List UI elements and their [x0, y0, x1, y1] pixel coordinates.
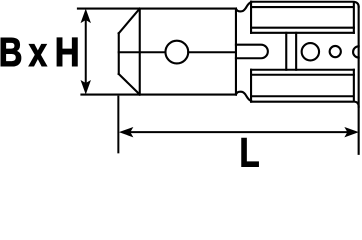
- label B x H: [0, 28, 80, 75]
- upper wall inner line: [251, 27, 354, 29]
- upper block top edge with rounded right corner: [251, 2, 359, 7]
- lower block left edge: [250, 70, 252, 102]
- outer right edge + L extension line: [358, 7, 360, 154]
- lower block bottom edge with rounded right corner: [251, 102, 359, 107]
- lower block top edge: [251, 69, 354, 71]
- centerline right segment: [188, 51, 236, 53]
- arrow right (L): [344, 127, 359, 137]
- top shoulder groove curve: [236, 2, 251, 11]
- centerline left segment: [119, 51, 166, 53]
- B x H dimension line: [85, 16, 87, 86]
- svg-text:L: L: [240, 129, 260, 175]
- bottom shoulder groove curve: [236, 92, 251, 101]
- bottom edge + extension line: [81, 93, 236, 95]
- upper block right edge: [353, 3, 355, 32]
- hole circle: [165, 41, 188, 64]
- right notch semicircle: [353, 46, 359, 57]
- lower wall inner line: [251, 74, 354, 76]
- upper bore line: [251, 6, 352, 8]
- svg-text:B: B: [0, 28, 22, 74]
- arrow left (L): [119, 127, 133, 137]
- chamfer bottom diagonal: [119, 74, 140, 95]
- L dimension line: [124, 131, 352, 133]
- lower block right edge: [353, 70, 355, 100]
- stem right: [295, 33, 297, 70]
- L left extension line: [117, 96, 119, 154]
- upper block bottom edge: [251, 32, 354, 34]
- upper block left edge: [250, 2, 252, 33]
- svg-text:H: H: [55, 30, 80, 75]
- arrow down (BxH bottom): [81, 80, 91, 95]
- left chamfer face: [118, 33, 120, 74]
- chamfer top diagonal: [119, 9, 140, 34]
- top edge + extension line: [78, 8, 236, 10]
- small circle: [330, 46, 341, 57]
- svg-text:x: x: [29, 28, 48, 74]
- lower bore line: [251, 95, 352, 97]
- arrow up (BxH top): [81, 9, 91, 24]
- stem left: [285, 33, 287, 70]
- neck end face vertical: [235, 9, 237, 95]
- bullet tongue: [236, 45, 268, 59]
- large circle: [302, 43, 319, 60]
- body left vertical: [139, 9, 141, 95]
